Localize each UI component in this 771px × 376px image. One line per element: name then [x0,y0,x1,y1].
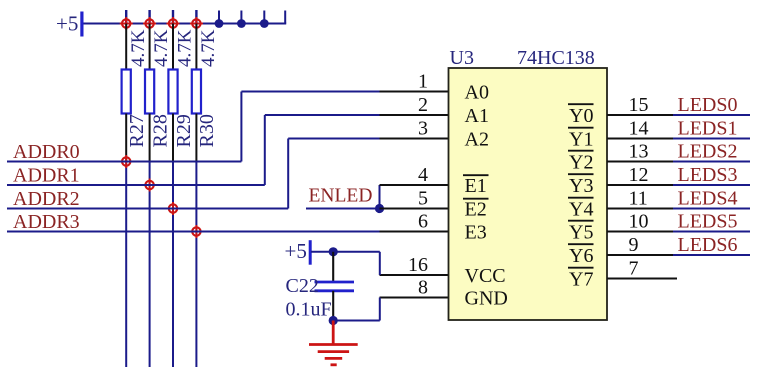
power bar +5 top [80,12,83,37]
pin name Y2 with overline [568,151,594,174]
pin name A2 [465,128,489,150]
wire LEDS1 [673,138,750,140]
pin stub 8 (left) [380,296,449,298]
junction R28 to +5 rail [143,17,156,30]
svg-text:U3: U3 [450,47,474,69]
pin stub 3 (left) [380,137,449,139]
wire ADDR2 to pin [288,138,382,140]
pin stub 16 (left) [380,274,449,276]
svg-text:3: 3 [418,118,428,140]
wire LEDS0 [673,114,750,116]
svg-text:R27: R27 [126,114,148,147]
svg-text:6: 6 [418,211,428,233]
pin name A1 [465,105,489,127]
junction dot cap top [329,247,338,256]
wire pin lead R27 top [125,24,127,70]
svg-text:VCC: VCC [465,265,506,287]
pin name VCC [465,265,506,287]
pin stub 15 (right) [607,114,673,116]
wire LEDS4 [673,208,750,210]
wire ADDR1 to pin [265,114,382,116]
svg-text:0.1uF: 0.1uF [286,299,332,321]
svg-text:E2: E2 [465,198,487,220]
svg-text:Y5: Y5 [569,221,593,243]
wire ADDR3 horizontal to pin 6 [7,231,382,233]
wire pin lead R29 top [172,24,174,70]
wire LEDS6 [673,254,750,256]
svg-text:ADDR1: ADDR1 [13,165,80,187]
svg-text:1: 1 [418,71,428,93]
svg-text:R30: R30 [196,114,218,147]
pin stub 14 (right) [607,137,673,139]
svg-text:Y0: Y0 [569,105,593,127]
pin name E3 [465,221,487,243]
pin stub 7 (right, unconnected) [607,277,677,279]
wire ADDR2 riser [287,139,289,209]
svg-text:4: 4 [418,164,428,186]
wire ADDR2 horizontal [7,208,288,210]
pin name Y1 with overline [568,128,594,151]
svg-text:+5: +5 [56,12,78,36]
svg-text:A2: A2 [465,128,489,150]
pin stub 12 (right) [607,184,673,186]
wire column below R27 [125,162,127,368]
resistor R28 body [145,70,154,114]
svg-text:LEDS3: LEDS3 [678,164,738,186]
wire rail stub up at R28 [148,10,150,24]
capacitor C22 plate bottom [315,289,355,292]
wire rail stub up at R27 [125,10,127,24]
svg-text:+5: +5 [285,239,307,263]
wire ADDR0 riser [240,92,242,162]
pin name A0 [465,81,489,103]
pin stub 1 (left) [380,90,449,92]
svg-text:Y2: Y2 [569,151,593,173]
wire ENLED [306,208,380,210]
svg-text:LEDS4: LEDS4 [678,188,738,210]
svg-text:ADDR2: ADDR2 [13,188,80,210]
svg-text:E3: E3 [465,221,487,243]
resistor R30 body [192,70,201,114]
wire column below R29 [172,162,174,368]
wire column below R30 [195,162,197,368]
wire ADDR0 to pin [241,91,382,93]
svg-text:Y6: Y6 [569,245,593,267]
svg-text:LEDS6: LEDS6 [678,234,738,256]
wire rail stub up at R29 [172,10,174,24]
wire pin lead R28 bottom [149,114,151,162]
pin name E2 [463,198,489,220]
wire VCC drop [379,252,381,275]
junction R29 column [167,202,180,215]
svg-text:R28: R28 [149,114,171,147]
wire pin lead R27 bottom [125,114,127,162]
wire rail stub up at R30 [195,10,197,24]
wire capacitor lead top [332,252,334,282]
svg-text:13: 13 [629,141,649,163]
wire rail end stub up [284,11,286,24]
svg-text:2: 2 [418,94,428,116]
wire LEDS5 [673,231,750,233]
wire capacitor lead bottom [332,291,334,321]
svg-text:LEDS5: LEDS5 [678,211,738,233]
svg-text:Y7: Y7 [569,268,593,290]
junction dot ENLED [375,204,384,213]
pin stub 6 (left) [380,230,449,232]
svg-text:ADDR0: ADDR0 [13,141,80,163]
svg-text:LEDS1: LEDS1 [678,118,738,140]
svg-text:16: 16 [408,254,428,276]
wire ENLED riser to pin 4 [379,185,381,209]
junction R30 to +5 rail [190,17,203,30]
svg-text:Y4: Y4 [569,198,593,220]
svg-text:E1: E1 [465,175,487,197]
svg-text:14: 14 [629,118,649,140]
wire LEDS3 [673,184,750,186]
power bar +5 bottom [309,240,312,265]
resistor R27 body [122,70,131,114]
svg-text:A0: A0 [465,81,489,103]
svg-text:C22: C22 [286,275,319,297]
wire GND node [333,320,380,322]
pin stub 13 (right) [607,160,673,162]
op-amp/decoder chip U3 74HC138 body [449,68,608,320]
svg-text:74HC138: 74HC138 [517,47,595,69]
ground symbol [309,321,358,365]
svg-text:4.7K: 4.7K [151,29,172,67]
svg-text:7: 7 [629,258,639,280]
pin stub 11 (right) [607,207,673,209]
svg-text:12: 12 [629,164,649,186]
wire rail stub up 2 [240,11,242,24]
wire pin lead R29 bottom [172,114,174,162]
svg-text:11: 11 [629,188,648,210]
pin name Y0 with overline [568,104,594,127]
wire ADDR0 horizontal [7,161,241,163]
pin stub 4 (left) [380,184,449,186]
svg-text:4.7K: 4.7K [128,29,149,67]
resistor R29 body [168,70,177,114]
junction R29 to +5 rail [167,17,180,30]
junction R30 column [190,225,203,238]
svg-text:5: 5 [418,188,428,210]
pin name E1 [463,175,489,197]
svg-text:10: 10 [629,211,649,233]
svg-text:ENLED: ENLED [309,186,373,207]
wire +5 to VCC node [311,251,380,253]
pin name Y4 with overline [568,198,594,221]
pin name GND [465,287,508,309]
wire pin lead R30 bottom [195,114,197,162]
wire pin lead R30 top [195,24,197,70]
pin stub 10 (right) [607,230,673,232]
pin stub 2 (left) [380,114,449,116]
junction dot cap bottom [329,316,338,325]
svg-text:R29: R29 [173,114,195,147]
wire rail stub up 3 [263,11,265,24]
pin name Y6 with overline [568,244,594,267]
junction R28 column [143,179,156,192]
svg-text:LEDS2: LEDS2 [678,141,738,163]
pin name Y5 with overline [568,221,594,244]
svg-text:9: 9 [629,234,639,256]
pin stub 9 (right) [607,254,673,256]
capacitor C22 plate top [315,281,355,284]
svg-text:15: 15 [629,94,649,116]
wire rail stub up 1 [218,11,220,24]
svg-text:Y3: Y3 [569,175,593,197]
pin stub 5 (left) [380,207,449,209]
wire +5 rail [84,23,287,25]
svg-text:A1: A1 [465,105,489,127]
junction R27 column [120,155,133,168]
svg-text:LEDS0: LEDS0 [678,94,738,116]
wire column below R28 [149,162,151,368]
wire ADDR1 horizontal [7,184,265,186]
wire ADDR1 riser [264,115,266,185]
svg-text:4.7K: 4.7K [198,29,219,67]
junction dot rail 1 [215,19,224,28]
svg-text:ADDR3: ADDR3 [13,211,80,233]
svg-text:Y1: Y1 [569,128,593,150]
pin name Y7 with overline [568,268,594,291]
junction R27 to +5 rail [120,17,133,30]
wire GND rise to pin 8 [379,298,381,321]
svg-text:4.7K: 4.7K [175,29,196,67]
svg-text:GND: GND [465,287,508,309]
junction dot rail 2 [237,19,246,28]
pin name Y3 with overline [568,174,594,197]
wire LEDS2 [673,161,750,163]
wire pin lead R28 top [149,24,151,70]
junction dot rail 3 [260,19,269,28]
svg-text:8: 8 [418,277,428,299]
